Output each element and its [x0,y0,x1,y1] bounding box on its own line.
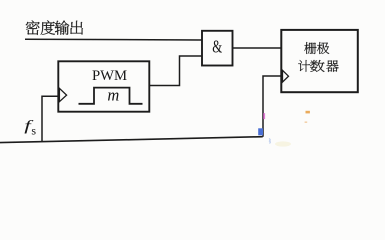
counter label line 1: 栅极 [304,42,329,54]
scan artifact: faint orange dash [305,121,308,123]
clock input triangle on PWM block [59,88,66,101]
svg-text:m: m [107,85,119,104]
pulse waveform inside PWM block [79,88,143,104]
node 密度输出 (density output) label [26,20,83,34]
gate counter block U3 [281,30,358,92]
svg-text:&: & [212,38,222,57]
wire: fs bus to PWM clock input [42,96,58,142]
scan artifact: magenta dash [263,113,265,119]
wire: fs bus to counter clock input [263,76,282,137]
scan artifact: orange blob [306,111,310,114]
scan artifact: blue blob [258,128,263,135]
svg-text:PWM: PWM [92,68,127,84]
wire: PWM output to AND gate input B [150,56,202,86]
wire: 密度输出 line to AND gate input A [25,38,202,41]
wire: fs bottom bus line [0,137,263,143]
PWM modulator block U1 [58,61,149,111]
scan artifact: faint yellow smear [275,141,291,146]
svg-text:s: s [31,123,36,137]
clock input triangle on counter block [283,70,289,82]
wire: AND gate output to counter [233,47,282,49]
scan artifact: faint blue scribble [269,139,270,144]
AND gate U2 [202,31,233,66]
counter label line 2: 计数器 [298,60,338,72]
